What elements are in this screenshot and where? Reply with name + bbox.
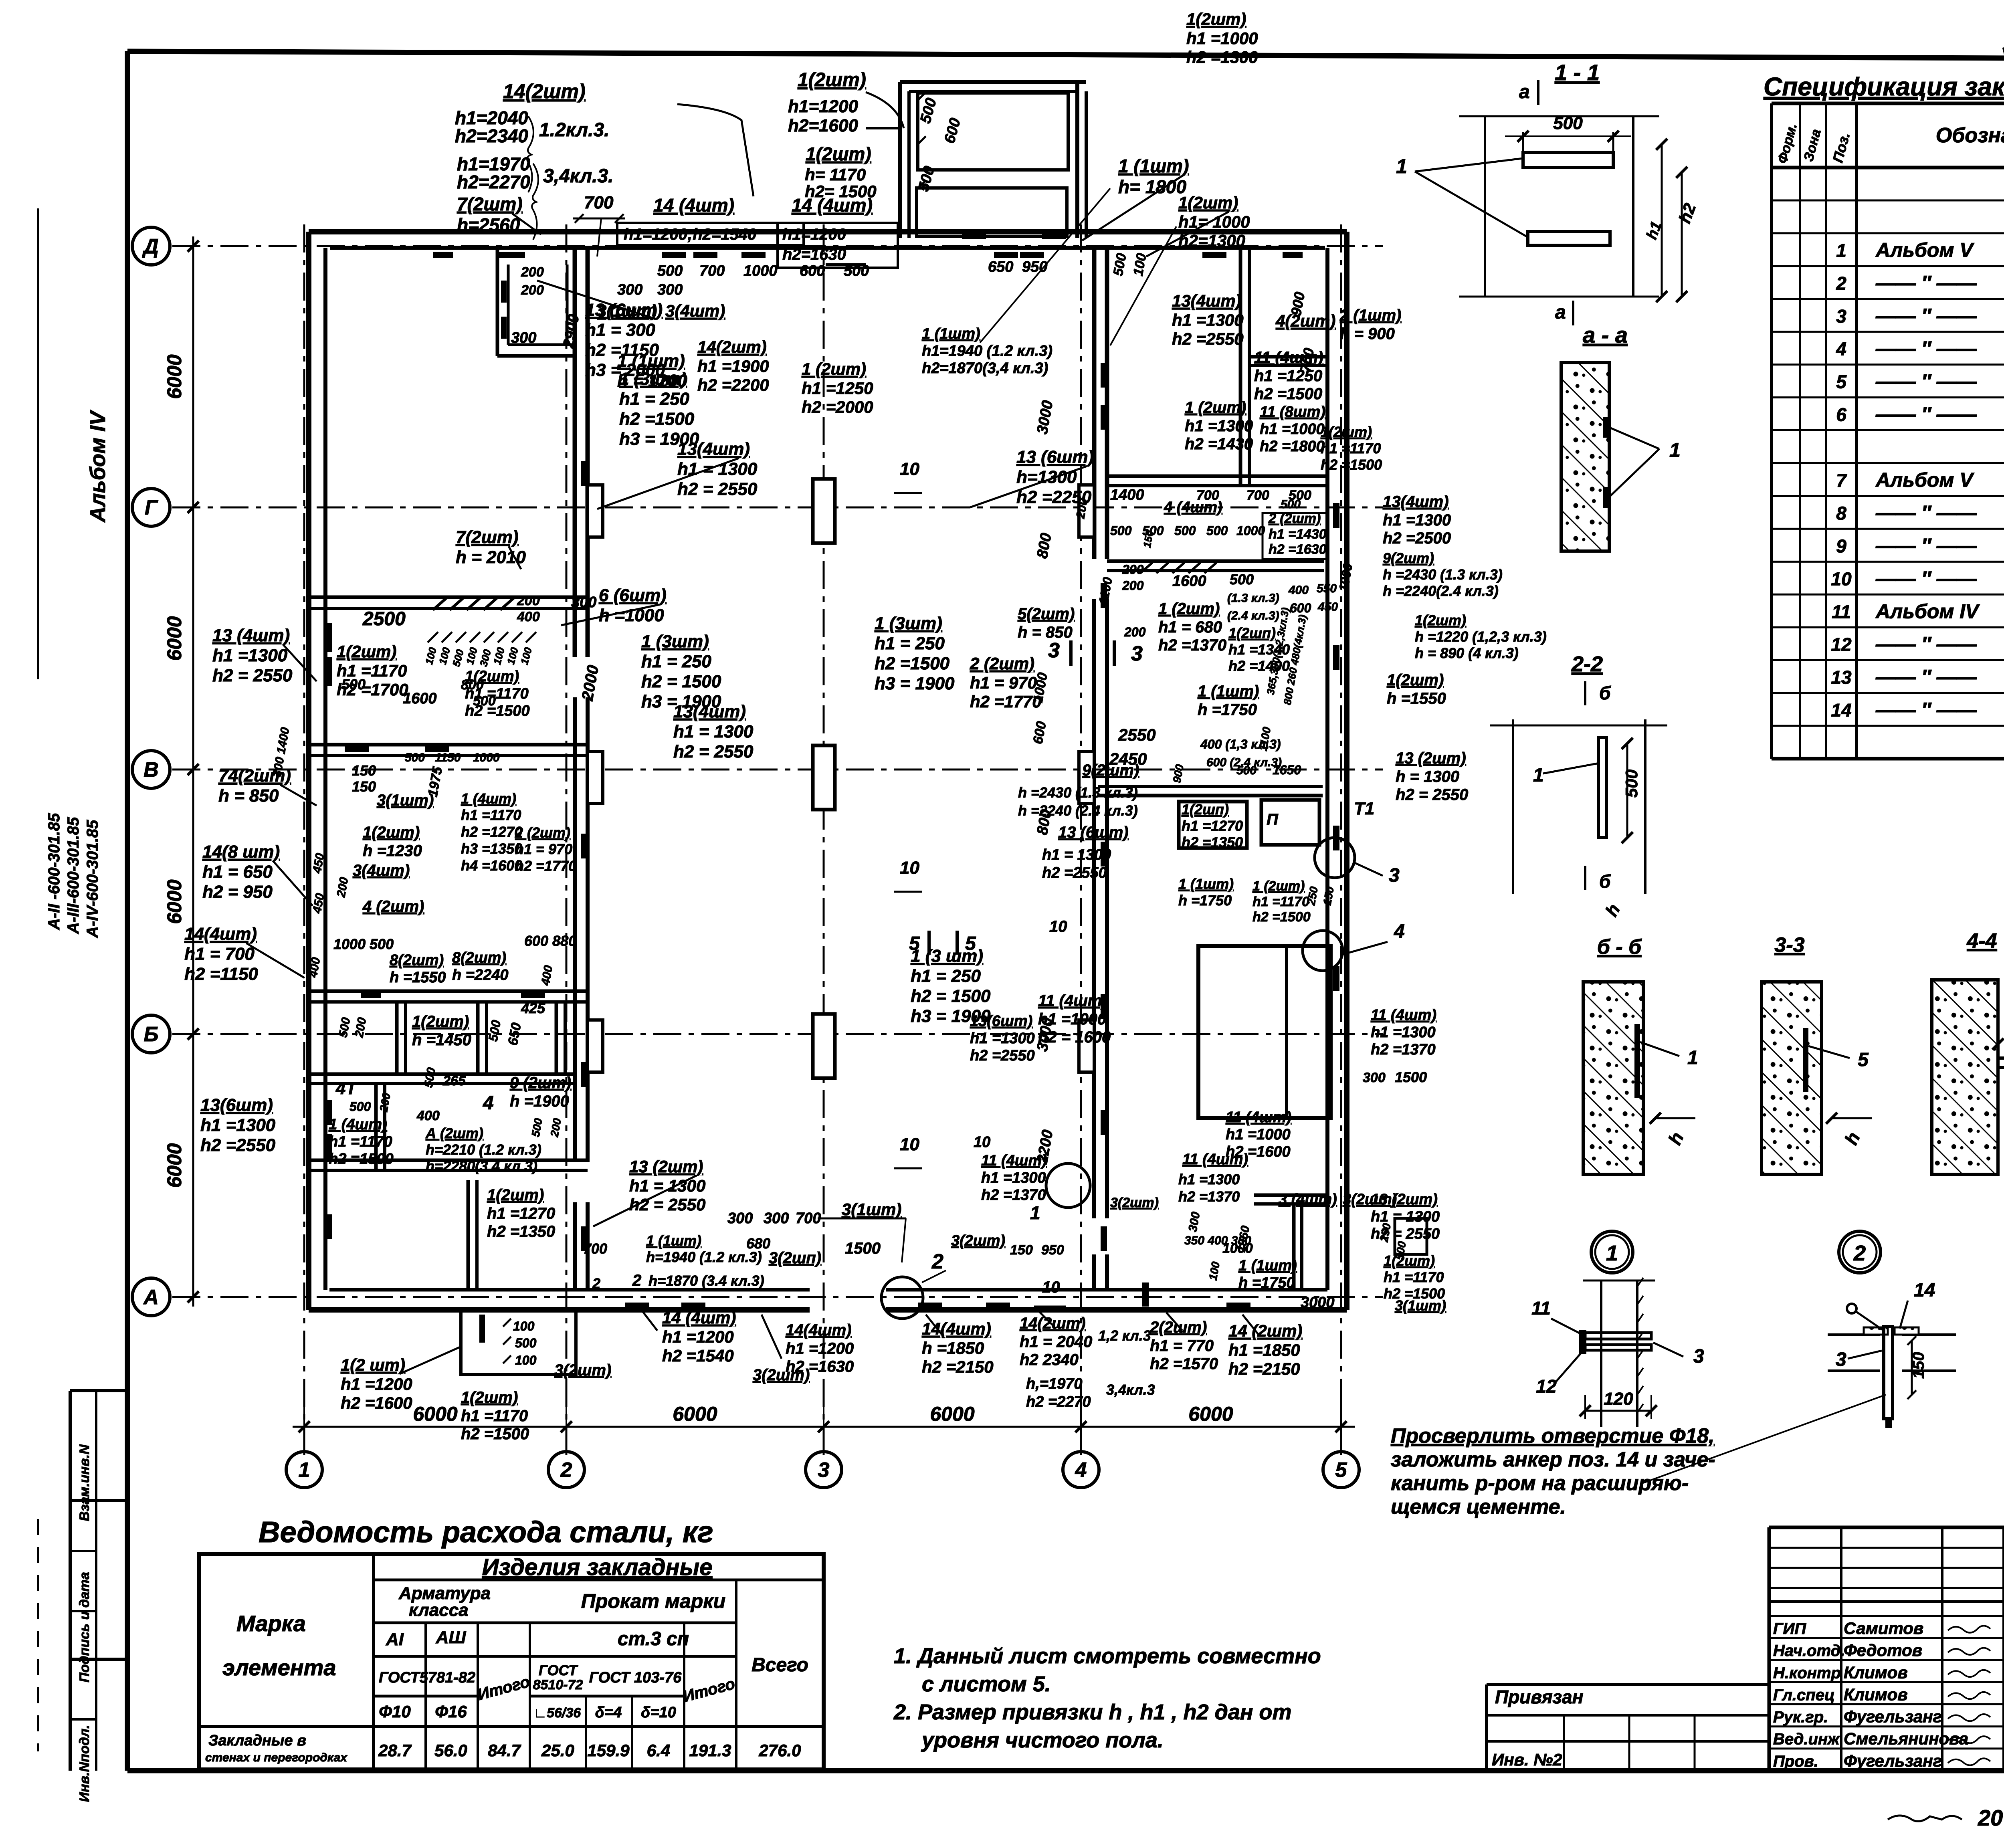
svg-text:3000: 3000	[1301, 1294, 1335, 1311]
exterior wall top	[309, 229, 1347, 234]
svg-text:11 (4шт): 11 (4шт)	[1226, 1109, 1291, 1126]
svg-text:1 - 1: 1 - 1	[1555, 60, 1600, 85]
svg-text:h2 =1370: h2 =1370	[981, 1187, 1046, 1204]
svg-text:4 (4шт): 4 (4шт)	[1164, 499, 1222, 516]
svg-text:Н.контр: Н.контр	[1773, 1664, 1841, 1682]
svg-text:84.7: 84.7	[488, 1741, 521, 1760]
svg-text:300: 300	[617, 281, 642, 298]
svg-text:h1 =1270: h1 =1270	[1182, 818, 1243, 834]
svg-text:h2=1630: h2=1630	[782, 246, 846, 263]
svg-text:28.7: 28.7	[378, 1741, 412, 1760]
svg-text:11 (4шт): 11 (4шт)	[1371, 1007, 1436, 1024]
svg-text:h1 = 970: h1 = 970	[515, 841, 572, 857]
svg-text:10: 10	[1042, 1278, 1060, 1296]
svg-text:400: 400	[517, 609, 540, 624]
svg-text:h1 =1200: h1 =1200	[786, 1340, 854, 1357]
pilasters axis 4 wall	[1079, 485, 1094, 537]
svg-text:700: 700	[699, 263, 725, 279]
svg-text:950: 950	[1022, 259, 1047, 275]
svg-text:Просверлить отверстие Ф18,: Просверлить отверстие Ф18,	[1391, 1424, 1715, 1448]
svg-text:—— ″ ——: —— ″ ——	[1875, 370, 1977, 393]
svg-text:14(8 шт): 14(8 шт)	[202, 842, 280, 862]
svg-text:h1 = 1300: h1 = 1300	[629, 1176, 705, 1195]
bottom right inner clusters	[1046, 1163, 1090, 1208]
svg-text:3(1шт): 3(1шт)	[842, 1200, 901, 1219]
svg-text:159.9: 159.9	[587, 1741, 630, 1760]
svg-text:13 (2шт): 13 (2шт)	[1396, 749, 1466, 767]
svg-text:1 (4шт): 1 (4шт)	[461, 790, 516, 807]
svg-text:550: 550	[1317, 582, 1337, 595]
svg-text:300: 300	[764, 1210, 789, 1227]
svg-text:3,4кл.3: 3,4кл.3	[1106, 1381, 1155, 1398]
svg-text:Обозначение: Обозначение	[1936, 124, 2004, 147]
svg-text:—— ″ ——: —— ″ ——	[1875, 337, 1977, 360]
svg-text:300: 300	[657, 281, 683, 298]
svg-text:3: 3	[1836, 1349, 1846, 1370]
svg-text:8(2шт): 8(2шт)	[390, 952, 444, 969]
svg-text:уровня чистого пола.: уровня чистого пола.	[921, 1728, 1164, 1752]
svg-text:h1 =1270: h1 =1270	[487, 1205, 555, 1222]
columns on axis 3	[813, 479, 835, 543]
svg-text:Марка: Марка	[236, 1611, 306, 1636]
svg-text:h1 =1170: h1 =1170	[329, 1133, 392, 1150]
svg-text:2-2: 2-2	[1571, 652, 1603, 676]
svg-text:Т1: Т1	[1354, 799, 1374, 818]
svg-text:h2 =1500: h2 =1500	[1321, 456, 1382, 473]
svg-text:450: 450	[1317, 600, 1338, 614]
svg-text:11 (4шт): 11 (4шт)	[981, 1152, 1047, 1169]
svg-text:А-II -600-301.85: А-II -600-301.85	[45, 813, 63, 930]
svg-text:Ф16: Ф16	[435, 1702, 467, 1721]
svg-text:—— ″ ——: —— ″ ——	[1875, 567, 1977, 590]
svg-text:(1.3 кл.3): (1.3 кл.3)	[1227, 592, 1279, 605]
svg-text:канить р-ром на расширяю-: канить р-ром на расширяю-	[1391, 1472, 1689, 1495]
svg-text:Всего: Всего	[751, 1654, 808, 1676]
svg-text:1 (3шт): 1 (3шт)	[619, 369, 687, 389]
svg-text:10: 10	[900, 1135, 919, 1154]
right block partitions	[1239, 248, 1242, 485]
svg-text:700: 700	[1246, 488, 1269, 503]
svg-text:—— ″ ——: —— ″ ——	[1875, 403, 1977, 426]
svg-text:h2 =1600: h2 =1600	[341, 1394, 412, 1412]
svg-text:h1 = 300: h1 = 300	[585, 320, 655, 340]
svg-text:200: 200	[521, 283, 544, 298]
svg-text:h2 =2200: h2 =2200	[697, 376, 769, 394]
svg-text:500: 500	[1174, 523, 1196, 538]
svg-text:Г: Г	[145, 496, 158, 519]
svg-text:1 (2шт): 1 (2шт)	[1252, 879, 1305, 894]
svg-text:1(2шп): 1(2шп)	[1182, 801, 1229, 818]
svg-text:h = 850: h = 850	[1018, 624, 1073, 641]
svg-text:h1 = 1300: h1 = 1300	[673, 722, 754, 741]
svg-text:3,4кл.3.: 3,4кл.3.	[543, 166, 613, 187]
svg-text:Спецификация закладных изделий: Спецификация закладных изделий в стенах …	[1764, 72, 2004, 101]
svg-text:Закладные в: Закладные в	[208, 1732, 306, 1749]
svg-text:500: 500	[405, 751, 425, 764]
svg-text:1150: 1150	[435, 751, 461, 764]
svg-text:h2 = 1500: h2 = 1500	[641, 672, 721, 691]
svg-text:14 (2шт): 14 (2шт)	[1228, 1321, 1302, 1340]
svg-text:Нач.отд.: Нач.отд.	[1773, 1642, 1845, 1660]
svg-text:12: 12	[1536, 1376, 1557, 1397]
detail circle 1	[1591, 1231, 1633, 1273]
svg-text:10: 10	[900, 858, 919, 878]
svg-text:3-3: 3-3	[1774, 933, 1804, 957]
svg-text:h =1450: h =1450	[412, 1031, 471, 1049]
svg-text:9: 9	[1836, 535, 1846, 556]
horizontal dimension chain 6000	[293, 1426, 1355, 1428]
svg-text:h1 =1170: h1 =1170	[461, 1407, 528, 1425]
axis lines vertical	[303, 224, 305, 1459]
svg-text:Привязан: Привязан	[1495, 1686, 1583, 1707]
svg-text:1: 1	[1836, 240, 1846, 261]
svg-text:3: 3	[1693, 1346, 1704, 1367]
svg-text:h1= 1000: h1= 1000	[1178, 212, 1250, 231]
svg-text:56.0: 56.0	[434, 1741, 467, 1760]
svg-text:1 (3шт): 1 (3шт)	[641, 632, 709, 651]
svg-text:h2 =2500: h2 =2500	[1383, 529, 1451, 547]
svg-text:13(4шт): 13(4шт)	[1383, 493, 1449, 511]
svg-text:13(4шт): 13(4шт)	[677, 439, 750, 459]
svg-text:9(2шт): 9(2шт)	[1082, 761, 1139, 779]
svg-text:А-IV-600-301.85: А-IV-600-301.85	[84, 820, 101, 938]
svg-text:8510-72: 8510-72	[533, 1677, 583, 1692]
svg-text:h2 = 950: h2 = 950	[202, 882, 273, 902]
svg-text:П: П	[1267, 811, 1279, 828]
embed plate marks (black bars) on walls	[325, 623, 332, 652]
title block top grid	[1840, 1527, 1842, 1771]
svg-text:9 (2шт): 9 (2шт)	[510, 1074, 571, 1092]
svg-text:1000 500: 1000 500	[333, 936, 394, 952]
svg-text:δ=4: δ=4	[595, 1704, 622, 1721]
svg-text:h1 =1300: h1 =1300	[212, 646, 288, 665]
svg-text:h2 =1350: h2 =1350	[487, 1223, 555, 1240]
svg-text:ГОСТ: ГОСТ	[539, 1662, 578, 1678]
svg-text:2550: 2550	[1118, 725, 1156, 744]
svg-text:h1 = 680: h1 = 680	[1158, 618, 1222, 636]
svg-text:120: 120	[1604, 1389, 1633, 1409]
svg-text:100: 100	[513, 1319, 535, 1333]
svg-text:2 (2шт): 2 (2шт)	[970, 654, 1034, 673]
svg-text:14 (4шт): 14 (4шт)	[662, 1308, 736, 1327]
svg-text:1: 1	[1533, 765, 1544, 786]
svg-text:h =1750: h =1750	[1198, 701, 1257, 719]
svg-text:500: 500	[1110, 523, 1132, 538]
svg-text:Самитов: Самитов	[1844, 1619, 1923, 1638]
interior wall axis 2	[573, 248, 577, 657]
svg-text:6000: 6000	[163, 354, 186, 399]
svg-text:h1 =1170: h1 =1170	[461, 807, 521, 823]
svg-text:А (2шт): А (2шт)	[425, 1125, 483, 1141]
svg-text:9(2шт): 9(2шт)	[1383, 550, 1434, 566]
svg-text:Инв.Nподл.: Инв.Nподл.	[77, 1725, 92, 1802]
svg-text:—— ″ ——: —— ″ ——	[1875, 699, 1977, 721]
svg-text:Д: Д	[142, 235, 159, 258]
svg-text:Инв. №2: Инв. №2	[1492, 1750, 1562, 1769]
svg-text:h=2210 (1.2 кл.3): h=2210 (1.2 кл.3)	[426, 1141, 541, 1158]
svg-text:h =2430 (1.3 кл.3): h =2430 (1.3 кл.3)	[1018, 784, 1138, 801]
sheet frame	[127, 51, 2004, 60]
svg-text:h2 =1430: h2 =1430	[1185, 435, 1253, 453]
svg-text:h1 =1200: h1 =1200	[341, 1375, 412, 1394]
svg-text:h1=1200: h1=1200	[788, 97, 858, 116]
pривязан box	[1487, 1683, 1769, 1686]
svg-text:h = 890 (4 кл.3): h = 890 (4 кл.3)	[1415, 645, 1519, 661]
svg-text:1 (2шт): 1 (2шт)	[1185, 399, 1246, 416]
svg-text:13(6шт): 13(6шт)	[970, 1013, 1032, 1030]
svg-text:1(2шт): 1(2шт)	[798, 69, 866, 91]
svg-text:1650: 1650	[1273, 763, 1301, 777]
svg-text:h1 =1900: h1 =1900	[697, 357, 769, 376]
svg-text:h =1850: h =1850	[922, 1339, 984, 1357]
svg-text:—— ″ ——: —— ″ ——	[1875, 633, 1977, 655]
svg-text:h2 =1570: h2 =1570	[1150, 1355, 1218, 1373]
svg-text:h1=1200;h2=1540: h1=1200;h2=1540	[624, 226, 756, 243]
svg-text:300: 300	[727, 1210, 753, 1227]
svg-text:Вед.инж: Вед.инж	[1773, 1731, 1840, 1748]
svg-text:h1 = 700: h1 = 700	[184, 944, 255, 964]
svg-text:6000: 6000	[1188, 1403, 1233, 1425]
svg-text:Взам.инв.N: Взам.инв.N	[77, 1444, 92, 1521]
svg-text:276.0: 276.0	[758, 1741, 801, 1760]
svg-text:6000: 6000	[673, 1403, 717, 1425]
svg-text:14(2шт): 14(2шт)	[1020, 1315, 1086, 1332]
svg-text:7: 7	[1836, 470, 1847, 491]
svg-text:191.3: 191.3	[689, 1741, 731, 1760]
pilasters axis 2 wall	[588, 485, 603, 537]
leader from detail2 to note	[1643, 1395, 1886, 1483]
svg-text:h =1550: h =1550	[1387, 690, 1446, 707]
svg-text:2: 2	[931, 1250, 943, 1273]
vestibule above top wall	[898, 82, 902, 238]
svg-text:14 (4шт): 14 (4шт)	[653, 195, 734, 216]
svg-text:1: 1	[1606, 1241, 1618, 1265]
svg-text:h1 = 250: h1 = 250	[619, 389, 689, 409]
svg-text:1: 1	[1396, 155, 1407, 178]
svg-text:h2 =2000: h2 =2000	[802, 398, 873, 416]
svg-text:200: 200	[521, 265, 544, 280]
svg-text:1(2шт): 1(2шт)	[461, 1389, 518, 1406]
svg-text:h =1550: h =1550	[390, 969, 446, 986]
tick row in left room	[428, 632, 438, 642]
svg-text:13 (6шт): 13 (6шт)	[1016, 447, 1094, 467]
svg-text:h2=2270: h2=2270	[457, 172, 530, 192]
svg-text:1 (3 шт): 1 (3 шт)	[911, 946, 983, 966]
svg-text:14: 14	[1831, 700, 1851, 721]
vertical dimension chain 6000	[192, 236, 194, 1307]
svg-text:3: 3	[818, 1458, 830, 1482]
svg-text:h =2240 (2.4 кл.3): h =2240 (2.4 кл.3)	[1018, 802, 1138, 819]
svg-text:3(2шт): 3(2шт)	[554, 1361, 611, 1379]
svg-text:1600: 1600	[1172, 573, 1206, 590]
svg-text:А: А	[143, 1286, 159, 1309]
svg-text:h1 =1430: h1 =1430	[1269, 527, 1327, 542]
svg-text:h2 =1500: h2 =1500	[1252, 909, 1311, 925]
svg-text:500: 500	[1622, 769, 1641, 798]
svg-text:1: 1	[1687, 1047, 1698, 1068]
svg-text:б - б: б - б	[1597, 935, 1642, 959]
svg-text:200: 200	[517, 593, 540, 608]
svg-text:h2 =1370: h2 =1370	[1371, 1041, 1436, 1058]
svg-text:h1 =1000: h1 =1000	[1226, 1126, 1291, 1143]
svg-text:класса: класса	[409, 1600, 469, 1620]
svg-text:6000: 6000	[413, 1403, 457, 1425]
svg-text:100: 100	[515, 1353, 537, 1367]
svg-text:14(2шт): 14(2шт)	[503, 80, 586, 103]
svg-text:13(4шт): 13(4шт)	[673, 702, 746, 721]
svg-text:1400: 1400	[1110, 487, 1144, 503]
svg-text:265: 265	[442, 1073, 466, 1089]
svg-text:2500: 2500	[362, 608, 406, 630]
svg-text:5: 5	[1335, 1458, 1347, 1482]
svg-text:4: 4	[1394, 921, 1405, 942]
svg-text:h2 = 1500: h2 = 1500	[911, 986, 991, 1006]
svg-text:1 (1шт): 1 (1шт)	[1178, 876, 1234, 892]
svg-text:13 (4шт): 13 (4шт)	[212, 626, 290, 645]
svg-text:14: 14	[1914, 1280, 1935, 1301]
svg-text:h2 =1150: h2 =1150	[585, 340, 659, 360]
svg-text:1(2 шт): 1(2 шт)	[341, 1355, 405, 1374]
svg-text:13(4шт): 13(4шт)	[1172, 291, 1241, 310]
svg-text:25.0: 25.0	[541, 1741, 574, 1760]
svg-text:950: 950	[1041, 1242, 1064, 1258]
svg-text:1(2шт): 1(2шт)	[1415, 612, 1466, 628]
svg-text:6000: 6000	[163, 1143, 186, 1188]
svg-text:h2 =2270: h2 =2270	[1026, 1394, 1091, 1410]
svg-text:700: 700	[583, 1240, 607, 1257]
svg-text:3(2шп): 3(2шп)	[769, 1249, 821, 1267]
svg-text:(2.4 кл.3): (2.4 кл.3)	[1227, 609, 1279, 622]
svg-text:5: 5	[1836, 372, 1847, 392]
svg-text:700: 700	[796, 1210, 821, 1227]
svg-text:300: 300	[571, 594, 596, 611]
svg-text:h =1750: h =1750	[1238, 1274, 1295, 1291]
svg-text:10: 10	[974, 1134, 990, 1151]
svg-text:h =2240: h =2240	[452, 967, 509, 984]
svg-text:а - а: а - а	[1583, 322, 1628, 347]
svg-text:Климов: Климов	[1844, 1685, 1908, 1704]
svg-text:Пров.: Пров.	[1773, 1753, 1818, 1770]
svg-text:—— ″ ——: —— ″ ——	[1875, 305, 1977, 327]
svg-text:13 (2шт): 13 (2шт)	[1371, 1191, 1438, 1208]
svg-text:h1 =1850: h1 =1850	[1228, 1341, 1300, 1359]
svg-text:10: 10	[1049, 918, 1067, 935]
svg-text:h2 =1500: h2 =1500	[465, 703, 530, 719]
svg-text:h2 =2150: h2 =2150	[1228, 1359, 1300, 1378]
svg-text:а: а	[1519, 81, 1530, 103]
svg-text:h1 =1200: h1 =1200	[662, 1327, 734, 1346]
svg-text:Ф10: Ф10	[379, 1702, 411, 1721]
svg-text:650: 650	[988, 259, 1013, 275]
svg-text:3: 3	[1131, 642, 1143, 665]
svg-text:500: 500	[1236, 764, 1257, 777]
svg-text:1: 1	[1030, 1202, 1040, 1223]
svg-text:h2 = 2550: h2 = 2550	[677, 479, 758, 499]
svg-text:500: 500	[844, 263, 869, 279]
svg-text:Изделия закладные: Изделия закладные	[482, 1554, 713, 1580]
svg-text:h=1940 (1.2 кл.3): h=1940 (1.2 кл.3)	[646, 1249, 762, 1265]
svg-text:1(2шт): 1(2шт)	[487, 1186, 544, 1204]
svg-text:1 (4шт): 1 (4шт)	[329, 1116, 387, 1133]
svg-text:1 (1шт): 1 (1шт)	[1118, 156, 1189, 176]
svg-text:300: 300	[511, 329, 536, 346]
svg-text:h1 = 1300: h1 = 1300	[1042, 846, 1111, 863]
svg-text:4(2шт): 4(2шт)	[1275, 311, 1335, 330]
svg-text:5(2шт): 5(2шт)	[1018, 605, 1075, 623]
svg-text:1 (1шт): 1 (1шт)	[1198, 683, 1259, 700]
svg-text:—— ″ ——: —— ″ ——	[1875, 272, 1977, 294]
svg-text:Подпись и дата: Подпись и дата	[77, 1572, 92, 1682]
axis circles letters	[132, 227, 170, 265]
svg-text:11 (4шт): 11 (4шт)	[1182, 1151, 1248, 1168]
svg-text:стенах и перегородках: стенах и перегородках	[205, 1751, 347, 1764]
svg-text:1 (2шт): 1 (2шт)	[1158, 600, 1220, 618]
svg-text:1 (1шт): 1 (1шт)	[1238, 1257, 1297, 1274]
svg-text:13: 13	[1831, 667, 1852, 688]
svg-text:h2 =1500: h2 =1500	[619, 409, 695, 429]
svg-text:150: 150	[1010, 1242, 1033, 1258]
svg-text:1(2шт): 1(2шт)	[412, 1013, 469, 1030]
svg-text:Прокат марки: Прокат марки	[581, 1590, 725, 1612]
signature rows	[1769, 1615, 2004, 1617]
axis circles numbers	[286, 1452, 322, 1488]
svg-text:∟56/36: ∟56/36	[533, 1705, 581, 1721]
svg-text:h2 =1540: h2 =1540	[662, 1346, 734, 1365]
svg-text:h1 =1300: h1 =1300	[200, 1115, 276, 1135]
svg-text:Альбом IV: Альбом IV	[1875, 600, 1980, 622]
svg-text:500: 500	[341, 676, 366, 693]
svg-text:δ=10: δ=10	[641, 1704, 676, 1721]
svg-text:1 (1шт): 1 (1шт)	[646, 1232, 701, 1249]
svg-text:3 (4шт): 3 (4шт)	[1279, 1191, 1337, 1208]
svg-text:6000: 6000	[163, 616, 186, 660]
svg-text:13 (6шт): 13 (6шт)	[1058, 824, 1129, 841]
svg-text:500: 500	[1281, 498, 1301, 511]
svg-text:4: 4	[1075, 1458, 1087, 1482]
svg-text:2: 2	[632, 1272, 641, 1289]
svg-text:4 (2шт): 4 (2шт)	[362, 898, 424, 915]
svg-text:200: 200	[1122, 562, 1144, 577]
door hatch on wall 1490	[433, 598, 446, 610]
svg-text:13 (2шт): 13 (2шт)	[629, 1157, 703, 1176]
svg-text:1(2шт): 1(2шт)	[1186, 10, 1246, 28]
detail 2 sketch	[1828, 1333, 1880, 1336]
svg-text:4: 4	[1836, 339, 1846, 360]
svg-text:h1 = 250: h1 = 250	[641, 652, 711, 671]
svg-text:Фугельзанг: Фугельзанг	[1844, 1751, 1942, 1770]
svg-text:h2 =1270: h2 =1270	[461, 824, 522, 840]
svg-text:680: 680	[746, 1235, 770, 1252]
svg-text:h2 =1370: h2 =1370	[1178, 1188, 1240, 1205]
svg-text:1(2шт): 1(2шт)	[337, 642, 396, 661]
svg-text:АШ: АШ	[436, 1628, 467, 1647]
svg-text:h2 =1370: h2 =1370	[1158, 636, 1226, 654]
svg-text:h= 1170: h= 1170	[805, 165, 866, 184]
svg-text:11: 11	[1531, 1298, 1551, 1319]
svg-text:Гл.спец: Гл.спец	[1773, 1686, 1835, 1704]
svg-text:3(4шт): 3(4шт)	[665, 301, 725, 320]
svg-text:ГОСТ 103-76: ГОСТ 103-76	[589, 1669, 682, 1686]
svg-text:заложить анкер поз. 14 и заче-: заложить анкер поз. 14 и заче-	[1391, 1448, 1715, 1471]
svg-text:h3 = 1900: h3 = 1900	[875, 674, 955, 693]
svg-text:h =2240(2.4 кл.3): h =2240(2.4 кл.3)	[1383, 583, 1499, 599]
svg-text:1(2шт): 1(2шт)	[1321, 424, 1372, 440]
svg-text:400: 400	[416, 1108, 440, 1123]
svg-text:1(2шт): 1(2шт)	[1387, 671, 1444, 689]
svg-text:элемента: элемента	[222, 1655, 336, 1680]
svg-text:h1 =1300: h1 =1300	[981, 1169, 1046, 1186]
svg-text:h2 =1630: h2 =1630	[1269, 542, 1327, 557]
